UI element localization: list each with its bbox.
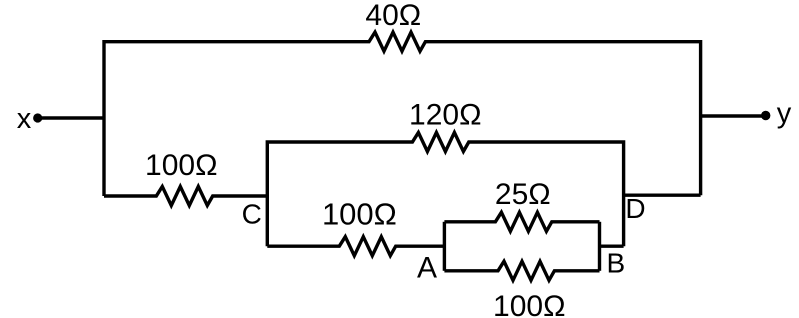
svg-text:y: y [777,98,792,130]
svg-text:A: A [417,252,437,285]
svg-text:B: B [606,248,625,279]
svg-text:x: x [17,103,32,135]
svg-text:120Ω: 120Ω [409,98,481,131]
svg-text:100Ω: 100Ω [145,149,217,182]
svg-text:100Ω: 100Ω [493,290,565,318]
svg-text:D: D [625,193,645,224]
svg-text:C: C [242,198,262,229]
svg-text:100Ω: 100Ω [322,196,397,231]
svg-text:40Ω: 40Ω [365,0,421,32]
svg-text:25Ω: 25Ω [495,178,551,211]
